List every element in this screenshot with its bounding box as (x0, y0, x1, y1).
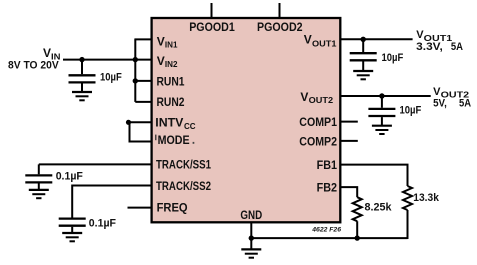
wire VIN2 stub (135, 59, 151, 61)
svg-text:RUN2: RUN2 (157, 95, 185, 109)
capacitor C2 0.1uF (25, 164, 52, 189)
svg-text:COMP2: COMP2 (299, 134, 337, 148)
pin label VIN1 (157, 34, 178, 49)
svg-text:RUN1: RUN1 (157, 74, 185, 88)
pin PGOOD2 stub (257, 3, 303, 34)
wire VOUT1 (340, 38, 413, 40)
svg-text:OUT2: OUT2 (309, 95, 334, 105)
node junction VOUT1-C4 (361, 37, 366, 42)
pin label TRACK/SS2 (156, 179, 211, 193)
wire bottom rail (251, 237, 407, 239)
svg-text:FREQ: FREQ (157, 200, 188, 214)
svg-text:OUT1: OUT1 (312, 38, 337, 48)
label VIN source (8, 46, 61, 71)
svg-text:13.3k: 13.3k (413, 192, 439, 204)
svg-text:10µF: 10µF (400, 105, 422, 117)
pin label FB1 (317, 158, 338, 172)
svg-text:V: V (300, 90, 308, 104)
wire FB2 (340, 187, 357, 197)
svg-text:V: V (157, 54, 165, 68)
pin label RUN1 (157, 74, 185, 88)
pin PGOOD1 stub (189, 3, 235, 34)
svg-text:TRACK/SS1: TRACK/SS1 (156, 158, 211, 172)
svg-text:8V TO 20V: 8V TO 20V (8, 60, 59, 72)
svg-text:PGOOD2: PGOOD2 (257, 20, 303, 34)
ground below C2 (29, 190, 49, 198)
label C4 value 10uF (382, 52, 404, 64)
node junction bus-VIN2 (133, 57, 138, 62)
svg-text:CC: CC (184, 121, 196, 131)
svg-text:10µF: 10µF (100, 71, 122, 83)
node junction GND-bottom rail (249, 235, 254, 240)
resistor R1 8.25k (353, 197, 362, 238)
label C1 value 10uF (100, 71, 122, 83)
node junction VOUT2-C5 (379, 93, 384, 98)
svg-text:COMP1: COMP1 (299, 115, 337, 129)
svg-text:V: V (304, 32, 312, 46)
wire input bus vertical (134, 39, 136, 102)
svg-text:V: V (43, 46, 51, 60)
node junction bus-RUN1 (133, 78, 138, 83)
node dot INTVCC (126, 120, 131, 125)
svg-text:4622 F26: 4622 F26 (311, 226, 341, 233)
ground below C1 (72, 92, 92, 100)
pin label COMP2 (299, 134, 337, 148)
wire FB1 (340, 165, 408, 186)
ground below C5 (372, 126, 392, 134)
svg-text:FB1: FB1 (317, 158, 338, 172)
svg-text:IN1: IN1 (165, 40, 178, 50)
capacitor C3 0.1uF (59, 219, 86, 233)
node junction R1-bottom rail (355, 235, 360, 240)
wire TRACK/SS1 (39, 163, 152, 165)
wire GND stub (250, 222, 252, 249)
capacitor C4 10uF output1 (350, 39, 377, 71)
label C3 value 0.1uF (89, 218, 116, 230)
node junction VIN-C1 (79, 57, 84, 62)
ground below C4 (353, 71, 373, 79)
label C5 value 10uF (400, 105, 422, 117)
wire RUN1 stub (135, 80, 151, 82)
svg-text:10µF: 10µF (382, 52, 404, 64)
pin label VOUT1 (304, 32, 337, 48)
svg-text:5A: 5A (451, 41, 463, 53)
pin label VIN2 (157, 54, 178, 69)
pin label VOUT2 (300, 90, 333, 105)
wire FREQ stub (128, 207, 152, 209)
wire VIN1 stub (134, 38, 151, 40)
svg-text:0.1µF: 0.1µF (89, 218, 116, 230)
pin label FREQ (157, 200, 188, 214)
wire VIN input (63, 59, 135, 61)
svg-text:PGOOD1: PGOOD1 (189, 20, 235, 34)
svg-text:MODE: MODE (158, 133, 190, 147)
svg-text:IN2: IN2 (165, 59, 178, 69)
label R2 value 13.3k (413, 192, 439, 204)
pin label RUN2 (157, 95, 185, 109)
svg-text:5V,: 5V, (433, 98, 447, 110)
svg-text:8.25k: 8.25k (365, 201, 393, 213)
pin label FB2 (317, 181, 338, 195)
label VOUT1 output (416, 29, 463, 53)
svg-text:3.3V,: 3.3V, (416, 41, 443, 53)
svg-text:GND: GND (240, 208, 262, 222)
pin label MODE (155, 133, 194, 147)
ground GND pin (241, 249, 261, 257)
wire TRACK/SS2 (72, 186, 151, 218)
svg-text:TRACK/SS2: TRACK/SS2 (156, 179, 211, 193)
capacitor C5 10uF output2 (368, 96, 395, 126)
label C2 value 0.1uF (56, 171, 83, 183)
resistor R2 13.3k (403, 186, 412, 239)
svg-text:FB2: FB2 (317, 181, 338, 195)
wire INTVCC tie (130, 122, 152, 141)
wire COMP2 stub (340, 140, 358, 142)
label VOUT2 output (433, 86, 471, 110)
capacitor C1 10uF input (69, 60, 96, 92)
pin label TRACK/SS1 (156, 158, 211, 172)
pin label COMP1 (299, 115, 337, 129)
label figure number 4622 F26 (311, 226, 341, 233)
pin label INTVCC (155, 115, 195, 131)
svg-text:0.1µF: 0.1µF (56, 171, 83, 183)
wire VOUT2 (340, 95, 431, 97)
wire COMP1 stub (340, 121, 358, 123)
svg-text:INTV: INTV (155, 115, 183, 129)
wire RUN2 stub (135, 101, 151, 103)
op-amp U1 (LTM4622 module body) (152, 18, 341, 222)
svg-text:V: V (157, 34, 165, 48)
label R1 value 8.25k (365, 201, 393, 213)
pin label GND (240, 208, 262, 222)
svg-text:5A: 5A (459, 98, 471, 110)
ground below C3 (62, 233, 82, 241)
